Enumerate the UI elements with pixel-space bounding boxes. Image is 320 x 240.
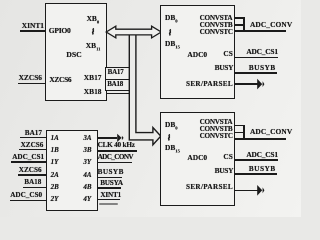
pin label CONVSTB [200,22,233,29]
block name DSC [66,51,82,59]
net label BUSYB (U3) [249,165,276,172]
chip name ADC0 (U3) [187,154,207,161]
wire XINT1 (row 4Y) [97,199,120,201]
net ADC_CS1 wire (U2) [235,57,278,59]
pin 2Y [51,196,59,203]
net label ADC_CONV (U2) [250,21,292,28]
chip name ADC0 [187,51,207,58]
pin label DB15 (U3) [165,144,180,151]
wire XINT1 to DSC [20,30,46,32]
wire SER/PARSEL out (U2) [235,83,258,85]
wire 3A to data bus with arrow [97,137,117,139]
wire BA18 [23,187,46,189]
net ADC_CONV wire (U2) [235,30,287,32]
net ADC_CS1 (left row 1Y) [12,154,44,161]
ADC block U3 (bottom, AD7606) [160,112,235,206]
wire BUSYA (row 4B) [97,187,121,189]
net label ADC_CONV (row 3Y) [98,154,133,161]
wire bracket vertical (U2) [243,17,245,31]
wire CONVSTA stub (U2) [235,17,245,19]
pin label CONVSTA (U3) [200,119,233,126]
net ADC_CS1 wire (U3) [235,159,278,161]
net BUSYB wire (U3) [235,173,277,175]
pin label CONVSTC (U3) [200,133,233,140]
net XZCS6 (left row 1B) [21,142,44,149]
wire bracket vertical (U3) [243,125,245,139]
wire BUSYB (row 4A) [97,177,121,179]
net label CLK 40 kHz [98,142,135,149]
bus ellipsis squiggle (U3) [167,134,171,141]
pin label XB18 [84,88,102,95]
net label XINT1 (row 4Y) [100,192,121,199]
wire CONVSTB stub (U3) [235,132,245,134]
bus label XB0 [87,15,100,22]
pin 3B [83,147,91,154]
wire ADC_CS0 [10,200,46,202]
net label ADC_CONV (U3) [250,128,292,135]
net ADC_CONV wire (U3) [235,138,287,140]
pin label GPIO0 [49,27,71,35]
net XZCS6 (left of DSC) [19,74,42,81]
net BA17 (left) [25,130,42,137]
net label BUSYB (U2) [249,64,276,71]
pin label DB0 (U3) [165,121,178,128]
bus ellipsis squiggle (DSC) [91,28,95,35]
wire XZCS6 row 1B [19,149,47,151]
wire SER/PARSEL out (U3) [235,190,258,192]
wire BA17 [20,137,47,139]
pin 4Y [83,196,91,203]
pin label CONVSTB (U3) [200,126,233,133]
DSC block U1 [45,3,106,102]
pin 4A [83,172,91,179]
pin 2B [51,184,59,191]
latch box BA18 [107,81,123,88]
net XZCS6 (left row 2A) [19,167,42,174]
pin 2A [51,172,59,179]
pin label BUSY [215,64,234,71]
net ADC_CS0 (left row 2Y) [10,192,42,199]
pin 3A [83,135,91,142]
wire XZCS6 row 2A [18,174,46,176]
bus ellipsis squiggle (U2) [168,29,172,36]
pin 4B [83,184,91,191]
ADC block U2 (top, AD7606) [160,5,235,100]
pin label SER/PARSEL (U3) [186,184,233,191]
pin label CONVSTC [200,29,233,36]
wire ADC_CONV (row 3Y) [97,162,132,164]
wire CONVSTA stub (U3) [235,125,245,127]
latch box BA17 [105,67,130,92]
pin 1B [51,147,59,154]
bus label XB11 [86,42,101,49]
scan smudge below 4Y wire [99,203,118,206]
wire CONVSTB stub (U2) [235,24,245,26]
pin 1Y [51,159,59,166]
pin 1A [51,135,59,142]
pin label DB0 [165,14,178,21]
pin label BUSY (U3) [215,167,234,174]
net BA18 (left row 2B) [24,179,41,186]
pin label CONVSTA [200,15,233,22]
net label BUSYA (row 4B) [100,180,123,187]
net label BUSYB (row 4A) [98,169,124,176]
pin label CS (U3) [223,153,232,160]
pin label SER/PARSEL [186,81,233,88]
net label ADC_CS1 (U2) [246,48,277,55]
wire ADC_CS1 row 1Y [11,161,46,163]
net label ADC_CS1 (U3) [246,151,277,158]
pin 3Y [83,159,91,166]
pin label XB17 [84,74,102,81]
wire XB18 stub under BA18 [106,93,129,95]
wire XZCS6 to DSC [18,83,46,85]
net BUSYB wire (U2) [235,72,277,74]
pin label CS [223,50,232,57]
wire CLK (row 3B) [97,150,136,152]
pin label DB15 [165,40,180,47]
net XINT1 (left of DSC) [22,22,44,29]
quad buffer chip U4 (74HC157-style) [46,130,98,211]
pin label XZCS6 (inside DSC) [49,76,71,83]
